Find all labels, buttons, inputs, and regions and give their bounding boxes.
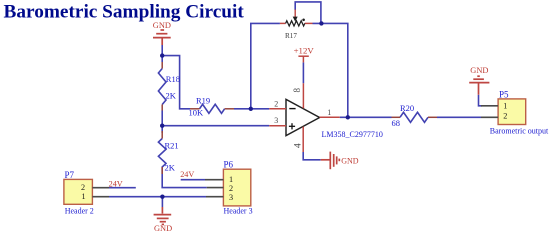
svg-text:Barometric output: Barometric output: [490, 126, 549, 135]
svg-text:R17: R17: [285, 32, 297, 40]
svg-text:1: 1: [327, 108, 331, 117]
svg-text:R18: R18: [166, 74, 180, 84]
svg-text:1: 1: [229, 175, 233, 184]
svg-text:3: 3: [274, 116, 278, 125]
svg-text:R20: R20: [400, 103, 414, 113]
svg-text:R19: R19: [196, 96, 210, 106]
svg-text:2K: 2K: [165, 163, 176, 173]
svg-text:GND: GND: [153, 21, 171, 30]
svg-text:2: 2: [81, 183, 85, 192]
svg-text:GND: GND: [470, 66, 488, 75]
svg-text:P5: P5: [499, 90, 509, 100]
svg-text:2: 2: [274, 99, 278, 108]
svg-text:P7: P7: [65, 170, 75, 180]
svg-text:GND: GND: [154, 224, 172, 233]
svg-text:1: 1: [82, 192, 86, 201]
svg-text:2: 2: [503, 111, 507, 120]
svg-text:68: 68: [392, 118, 401, 128]
svg-text:1: 1: [503, 102, 507, 111]
svg-text:Barometric Sampling Circuit: Barometric Sampling Circuit: [4, 2, 245, 23]
svg-text:2K: 2K: [166, 91, 177, 101]
svg-text:3: 3: [229, 193, 233, 202]
svg-text:P6: P6: [224, 160, 234, 170]
svg-text:2: 2: [229, 184, 233, 193]
svg-text:24V: 24V: [109, 180, 123, 189]
svg-text:+12V: +12V: [294, 46, 315, 56]
svg-text:10K: 10K: [189, 108, 205, 118]
svg-text:R21: R21: [165, 141, 179, 151]
svg-text:24V: 24V: [180, 170, 194, 179]
svg-text:4: 4: [294, 143, 304, 148]
svg-text:GND: GND: [341, 156, 359, 165]
svg-text:Header 3: Header 3: [224, 207, 253, 216]
svg-text:LM358_C2977710: LM358_C2977710: [322, 130, 383, 139]
svg-text:8: 8: [292, 88, 302, 93]
svg-text:Header 2: Header 2: [65, 207, 94, 216]
